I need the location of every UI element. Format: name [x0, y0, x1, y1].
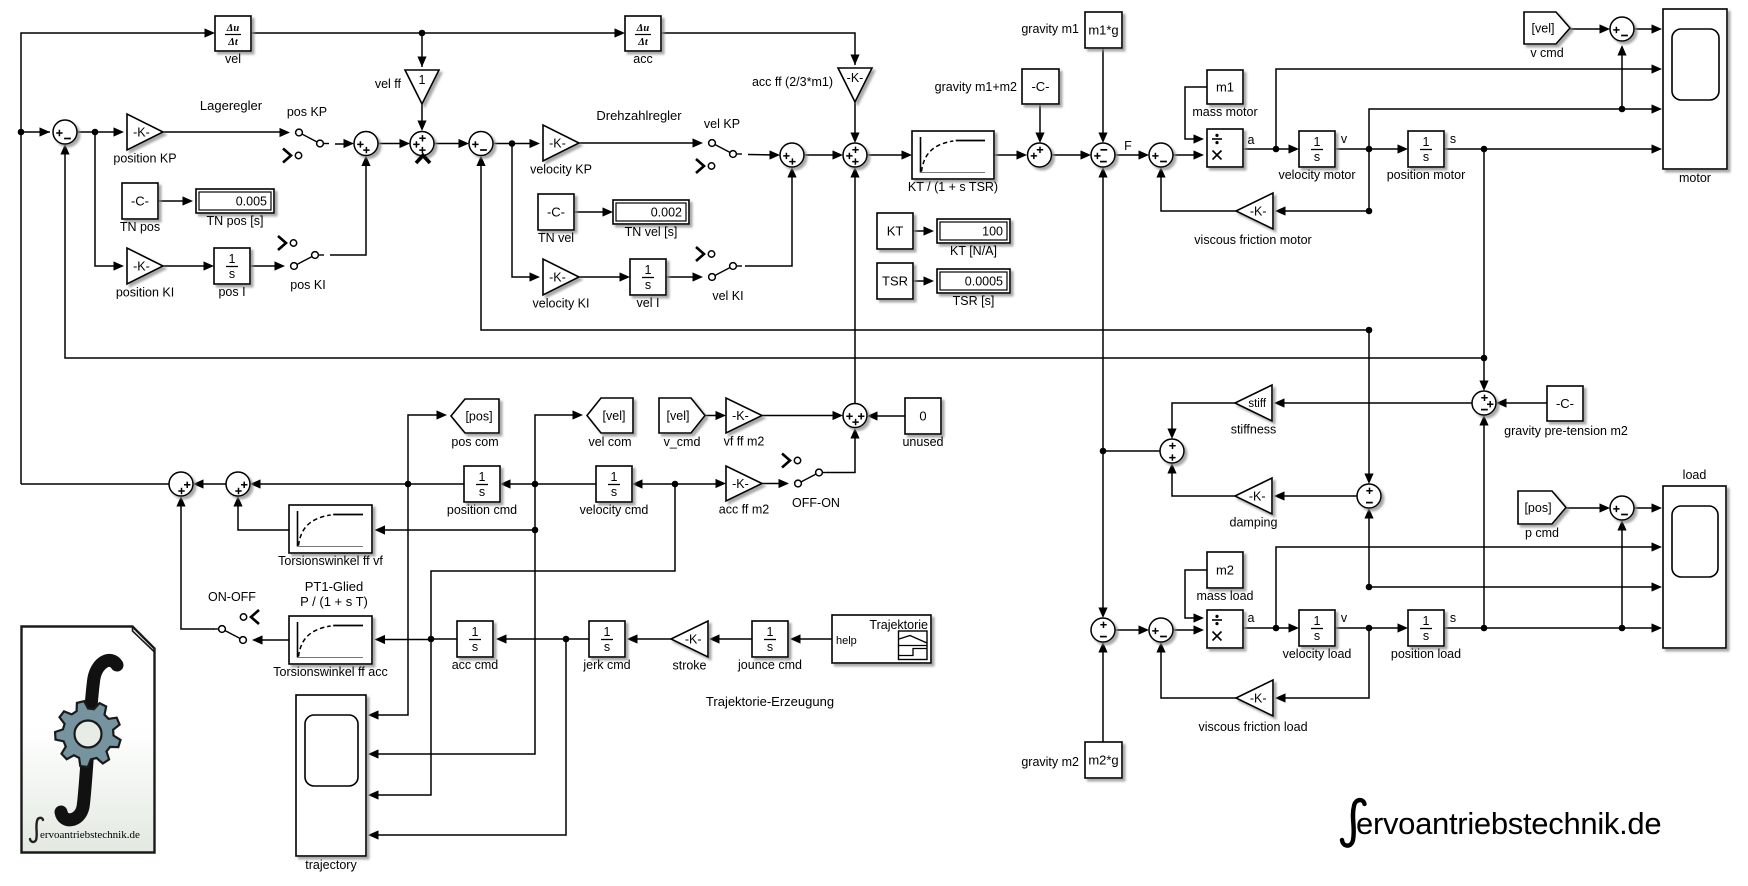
wire cmd vertical left — [21, 33, 212, 484]
gain position KI — [116, 248, 174, 300]
wire force line down to sum11 — [1102, 451, 1104, 615]
svg-text:jounce cmd: jounce cmd — [737, 658, 802, 672]
switch pos KP — [280, 105, 330, 163]
svg-text:help: help — [836, 635, 857, 647]
wire position KI to pos I — [163, 265, 211, 267]
svg-text:[vel]: [vel] — [1532, 21, 1555, 35]
wire sum13 to stiffness — [1277, 402, 1472, 404]
goto tag pos com — [451, 399, 499, 449]
wire sum9 to motor scope — [1634, 28, 1660, 30]
svg-text:TN vel [s]: TN vel [s] — [625, 225, 678, 239]
svg-text:Drehzahlregler: Drehzahlregler — [596, 108, 682, 123]
svg-text:stiff: stiff — [1248, 398, 1266, 410]
wire vel ff drop — [421, 33, 423, 67]
svg-text:position KP: position KP — [113, 152, 176, 166]
wire sum7 to sum8 (F) — [1115, 154, 1146, 156]
constant m1 — [1192, 70, 1257, 119]
wire m2*g to sum11 — [1102, 645, 1104, 742]
svg-text:[pos]: [pos] — [465, 409, 492, 423]
svg-text:vf ff m2: vf ff m2 — [724, 435, 765, 449]
svg-text:Trajektorie-Erzeugung: Trajektorie-Erzeugung — [706, 694, 834, 709]
svg-text:1: 1 — [479, 470, 486, 484]
node v friction branch — [1366, 208, 1373, 215]
wire acc cmd out — [434, 638, 457, 640]
logo integral sign — [61, 660, 117, 819]
wire sum15 to product load — [1173, 629, 1201, 631]
sum17 cmd torsion vf — [226, 472, 250, 496]
sum1 pos PI — [354, 132, 378, 156]
wire TN pos to display — [158, 200, 190, 202]
svg-text:jerk cmd: jerk cmd — [582, 658, 630, 672]
svg-text:s: s — [604, 640, 610, 654]
wire stiffness to sum10 — [1172, 403, 1235, 436]
svg-text:s: s — [479, 485, 485, 499]
switch OFF-ON — [779, 454, 840, 511]
gain damping — [1230, 478, 1278, 530]
svg-text:-K-: -K- — [1250, 204, 1267, 218]
svg-text:m1*g: m1*g — [1088, 22, 1118, 37]
wire sum16 out to cmd line — [21, 483, 169, 485]
node v load branch — [1366, 625, 1373, 632]
svg-text:v: v — [1341, 132, 1348, 146]
svg-text:1: 1 — [767, 625, 774, 639]
node vel cmd to torsion vf — [532, 527, 539, 534]
wire m1 to product divide — [1185, 87, 1207, 139]
wire acc deriv to acc ff — [661, 33, 855, 65]
wire acc up from acc cmd — [431, 484, 675, 639]
transfer KT/(1+sTSR) — [908, 131, 998, 194]
svg-text:load: load — [1683, 468, 1707, 482]
switch pos KI — [275, 236, 326, 292]
svg-text:-C-: -C- — [1556, 396, 1574, 411]
svg-text:acc cmd: acc cmd — [452, 658, 499, 672]
svg-text:s: s — [645, 278, 651, 292]
svg-text:Lageregler: Lageregler — [200, 98, 263, 113]
from tag vel / v cmd — [1524, 12, 1570, 60]
wire vel cmd to torsion vf — [378, 529, 535, 531]
integrator acc cmd — [452, 621, 499, 672]
goto tag vel com — [587, 398, 633, 449]
svg-text:-K-: -K- — [549, 136, 566, 150]
svg-text:vel KP: vel KP — [704, 117, 740, 131]
svg-text:vel com: vel com — [588, 435, 631, 449]
gain stroke — [671, 621, 708, 673]
svg-text:0.0005: 0.0005 — [965, 274, 1003, 288]
constant m1*g — [1085, 12, 1122, 48]
wire vcmd tag to vf ff m2 — [705, 415, 723, 417]
wire jounce cmd to stroke — [712, 638, 752, 640]
gain acc ff m2 — [719, 466, 770, 517]
wire sum1 to sum2 — [378, 143, 407, 145]
display TSR — [937, 269, 1010, 308]
wire s load to sum13 — [1483, 418, 1485, 628]
wire jerk cmd out — [499, 638, 589, 640]
svg-text:PT1-Glied: PT1-Glied — [305, 579, 364, 594]
svg-text:pos KI: pos KI — [290, 278, 325, 292]
svg-text:m2: m2 — [1216, 562, 1234, 577]
sum16 cmd total — [169, 472, 193, 496]
wire m2 to product divide — [1185, 570, 1207, 618]
wire pos tag to sum14 — [1566, 507, 1607, 509]
sum9 v compare — [1610, 17, 1634, 41]
svg-text:-K-: -K- — [732, 409, 749, 423]
svg-text:TN pos [s]: TN pos [s] — [207, 214, 264, 228]
svg-text:Δt: Δt — [227, 37, 239, 48]
wire s load to sum14 — [1621, 523, 1623, 628]
scope load — [1663, 486, 1726, 648]
wire vel KP switch to sum4 — [748, 154, 777, 157]
wire vel error to velocity KI — [512, 144, 537, 278]
wire sum18 to sum5 — [854, 170, 856, 404]
svg-text:[vel]: [vel] — [603, 409, 626, 423]
svg-text:F: F — [1124, 139, 1132, 153]
svg-text:TN pos: TN pos — [120, 220, 160, 234]
svg-text:a: a — [1248, 133, 1255, 147]
wire pos KI switch to sum1 — [330, 159, 366, 256]
sum2 unconnected port — [416, 155, 430, 163]
node jerk branch — [563, 636, 570, 643]
svg-text:-K-: -K- — [685, 632, 702, 646]
svg-text:ON-OFF: ON-OFF — [208, 590, 256, 604]
node v to vcmd sum — [1619, 106, 1626, 113]
svg-text:100: 100 — [982, 224, 1003, 238]
wire vf ff m2 to sum18 — [762, 415, 840, 417]
wire velocity motor to position motor — [1335, 148, 1405, 150]
node v motor branch — [1366, 146, 1373, 153]
wire pos error to position KI — [95, 132, 121, 266]
svg-text:Δu: Δu — [226, 23, 240, 34]
node position error branch — [92, 129, 99, 136]
svg-text:1: 1 — [472, 625, 479, 639]
svg-text:s: s — [229, 267, 235, 281]
wire sum14 to load scope — [1634, 507, 1660, 509]
svg-text:gravity m1+m2: gravity m1+m2 — [935, 80, 1017, 94]
wire force line vertical — [1102, 170, 1104, 451]
gain position KP — [113, 114, 176, 166]
gain viscous friction motor — [1236, 193, 1273, 229]
wire velocity cmd to position cmd — [503, 483, 596, 485]
svg-text:s: s — [611, 485, 617, 499]
svg-text:v: v — [1341, 611, 1348, 625]
wire velocity load to position load — [1335, 627, 1405, 629]
svg-text:-K-: -K- — [133, 259, 150, 273]
svg-text:0.005: 0.005 — [236, 194, 267, 208]
svg-text:pos KP: pos KP — [287, 105, 327, 119]
svg-text:s: s — [1423, 150, 1429, 164]
wire position motor s to motor scope — [1444, 148, 1660, 150]
svg-text:v cmd: v cmd — [1530, 46, 1563, 60]
wire v to motor scope — [1369, 109, 1660, 149]
wire KT to display — [913, 230, 931, 232]
svg-text:vel: vel — [225, 52, 241, 66]
wire jerk to trajectory scope — [378, 639, 566, 835]
wire KT block to sum6 — [994, 154, 1024, 156]
constant TN pos — [120, 183, 160, 234]
svg-text:s: s — [472, 640, 478, 654]
node pos cmd branch — [405, 481, 412, 488]
svg-text:KT / (1 + s TSR): KT / (1 + s TSR) — [908, 180, 998, 194]
node acc cmd branch — [428, 636, 435, 643]
sum5 acc ff add — [843, 143, 867, 167]
node vel ff branch — [419, 30, 426, 37]
svg-text:KT: KT — [887, 223, 904, 238]
gain stiffness — [1231, 385, 1277, 437]
wire zero to sum18 — [870, 415, 905, 417]
sum11 load force — [1091, 618, 1115, 642]
svg-text:TSR [s]: TSR [s] — [953, 294, 995, 308]
svg-text:P / (1 + s T): P / (1 + s T) — [300, 594, 368, 609]
wire vcmd tag to sum9 — [1570, 28, 1607, 30]
integrator jounce cmd — [737, 621, 802, 672]
product load — [1207, 610, 1243, 648]
svg-text:0.002: 0.002 — [651, 205, 682, 219]
block Torsionswinkel ff vf — [278, 505, 383, 568]
wire acc ff m2 to switch — [762, 483, 786, 485]
svg-text:unused: unused — [902, 435, 943, 449]
logo gear — [55, 701, 120, 767]
block Trajektorie — [832, 615, 931, 663]
sum15 load friction — [1149, 618, 1173, 642]
svg-text:-C-: -C- — [547, 204, 565, 219]
svg-text:-K-: -K- — [1250, 691, 1267, 705]
svg-text:motor: motor — [1679, 171, 1711, 185]
gain velocity KP — [530, 125, 592, 177]
sum8 friction sub — [1149, 143, 1173, 167]
block Torsionswinkel ff acc — [273, 616, 387, 679]
wire viscous friction motor to sum8 — [1161, 170, 1236, 211]
svg-text:velocity KP: velocity KP — [530, 163, 592, 177]
wire position feedback — [65, 147, 1484, 358]
node acc branch top — [672, 481, 679, 488]
integrator pos I — [214, 248, 250, 299]
integrator position cmd — [447, 466, 517, 517]
wire sum12 to damping — [1277, 495, 1357, 497]
node position feedback junction — [1481, 355, 1488, 362]
svg-text:position load: position load — [1391, 647, 1461, 661]
svg-text:pos I: pos I — [218, 285, 245, 299]
scope trajectory — [296, 695, 366, 856]
integrator jerk cmd — [582, 621, 630, 672]
svg-text:-C-: -C- — [1031, 79, 1049, 94]
from tag pos / p cmd — [1518, 491, 1566, 540]
wire position KP to switch — [163, 131, 287, 133]
svg-text:pos com: pos com — [451, 435, 498, 449]
wire velocity feedback — [481, 159, 1369, 331]
wire gravity m1+m2 to sum6 — [1039, 104, 1041, 140]
svg-text:acc ff (2/3*m1): acc ff (2/3*m1) — [752, 75, 833, 89]
wire on-off switch to sum16 — [181, 499, 214, 629]
wire vel ff to sum2 — [421, 104, 423, 128]
svg-text:velocity motor: velocity motor — [1278, 168, 1355, 182]
svg-text:1: 1 — [604, 625, 611, 639]
svg-text:TN vel: TN vel — [538, 231, 574, 245]
svg-text:0: 0 — [919, 408, 926, 423]
svg-text:m1: m1 — [1216, 79, 1234, 94]
svg-text:s: s — [1314, 629, 1320, 643]
wire off-on switch to sum18 — [827, 431, 855, 473]
wire v load to viscous friction load — [1278, 628, 1369, 698]
wire sum4 to sum5 — [804, 154, 840, 156]
switch vel KI — [693, 247, 744, 303]
svg-text:Torsionswinkel ff acc: Torsionswinkel ff acc — [273, 665, 387, 679]
constant m2*g — [1085, 742, 1122, 778]
wire product a to velocity motor — [1243, 148, 1296, 150]
scope motor — [1663, 9, 1727, 169]
derivative block acc — [625, 16, 661, 66]
display KT — [937, 219, 1010, 258]
svg-text:KT [N/A]: KT [N/A] — [950, 244, 997, 258]
constant gravity m1+m2 — [1022, 69, 1059, 104]
display TN pos — [196, 189, 274, 228]
svg-text:gravity pre-tension m2: gravity pre-tension m2 — [1504, 424, 1628, 438]
svg-text:-C-: -C- — [131, 193, 149, 208]
node v load scope branch — [1366, 584, 1373, 591]
constant zero — [902, 398, 943, 449]
svg-text:trajectory: trajectory — [305, 858, 357, 872]
svg-text:position KI: position KI — [116, 286, 174, 300]
wire velocity KI to vel I — [579, 276, 627, 278]
wire product load a to velocity load — [1243, 627, 1296, 629]
wire pos cmd to pos com tag — [408, 415, 444, 484]
svg-text:Δt: Δt — [637, 37, 649, 48]
wire acc ff to sum5 — [854, 102, 856, 140]
wire TN vel to display — [574, 211, 610, 213]
svg-text:[pos]: [pos] — [1524, 501, 1551, 515]
sum7 force sum — [1091, 143, 1115, 167]
svg-text:s: s — [1450, 611, 1456, 625]
node a load branch — [1273, 625, 1280, 632]
svg-text:Δu: Δu — [636, 23, 650, 34]
svg-text:a: a — [1248, 611, 1255, 625]
wire m1*g to sum7 — [1102, 48, 1104, 140]
from tag v_cmd — [659, 398, 705, 449]
svg-text:vel KI: vel KI — [712, 289, 743, 303]
svg-text:1: 1 — [1423, 135, 1430, 149]
svg-text:position cmd: position cmd — [447, 503, 517, 517]
wire pos I to switch — [250, 265, 282, 267]
wire v load to load scope — [1369, 586, 1660, 588]
node cmd to position sum — [18, 129, 25, 136]
wire v motor to sum12 — [1368, 330, 1370, 481]
svg-text:-K-: -K- — [847, 71, 864, 85]
wire sum10 to force line — [1103, 450, 1161, 452]
gain vf ff m2 — [724, 398, 765, 449]
wire v to viscous friction motor — [1278, 149, 1369, 211]
sum4 vel PI — [780, 143, 804, 167]
node s load branch — [1481, 625, 1488, 632]
wire damping to sum10 — [1172, 466, 1235, 496]
wire sum3 out — [493, 143, 537, 145]
svg-text:-K-: -K- — [549, 270, 566, 284]
logo servoantriebstechnik document — [22, 627, 155, 853]
wire vel cmd down — [378, 484, 535, 754]
svg-text:1: 1 — [419, 73, 426, 87]
wire vel KI switch to sum4 — [745, 170, 792, 266]
product motor — [1207, 129, 1243, 167]
logo text — [30, 818, 140, 842]
svg-text:acc ff m2: acc ff m2 — [719, 503, 770, 517]
svg-text:1: 1 — [611, 470, 618, 484]
brand servoantriebstechnik.de — [1342, 800, 1661, 846]
sum13 rel position — [1472, 391, 1496, 415]
svg-text:-K-: -K- — [1249, 489, 1266, 503]
wire position cmd to sum17 — [253, 483, 464, 485]
svg-text:1: 1 — [645, 263, 652, 277]
wire cmd to sumA — [21, 131, 50, 133]
node velocity feedback junction — [1366, 327, 1373, 334]
svg-text:[vel]: [vel] — [667, 409, 690, 423]
svg-text:v_cmd: v_cmd — [664, 435, 701, 449]
node vel cmd branch — [532, 481, 539, 488]
wire TSR to display — [913, 280, 931, 282]
svg-text:damping: damping — [1230, 516, 1278, 530]
svg-text:1: 1 — [1314, 135, 1321, 149]
wire acc to acc ff m2 — [675, 483, 723, 485]
sum14 p compare — [1610, 496, 1634, 520]
node a motor branch — [1273, 146, 1280, 153]
svg-text:s: s — [1314, 150, 1320, 164]
node s motor branch — [1481, 146, 1488, 153]
wire trajektorie to jounce cmd — [793, 638, 832, 640]
svg-text:velocity cmd: velocity cmd — [580, 503, 649, 517]
svg-text:mass motor: mass motor — [1192, 105, 1257, 119]
wire a to motor scope — [1276, 69, 1660, 149]
integrator velocity motor — [1278, 131, 1355, 182]
svg-text:viscous friction load: viscous friction load — [1198, 720, 1307, 734]
switch ON-OFF — [208, 590, 262, 645]
svg-text:TSR: TSR — [882, 273, 908, 288]
svg-text:s: s — [767, 640, 773, 654]
svg-text:velocity load: velocity load — [1283, 647, 1352, 661]
svg-text:ervoantriebstechnik.de: ervoantriebstechnik.de — [40, 829, 140, 841]
wire vel I to switch — [666, 276, 700, 278]
sum18 unused — [843, 404, 867, 428]
wire s motor down — [1483, 149, 1485, 388]
wire acc to torsion acc — [378, 639, 431, 641]
integrator position motor — [1387, 131, 1466, 182]
wire velocity KP to switch — [579, 142, 700, 144]
svg-text:acc: acc — [633, 52, 652, 66]
derivative block vel — [215, 16, 251, 66]
wire pos KP switch out — [335, 143, 351, 145]
wire sumA out — [77, 131, 121, 133]
constant TN vel — [538, 194, 574, 245]
svg-text:stiffness: stiffness — [1231, 423, 1277, 437]
svg-text:m2*g: m2*g — [1088, 752, 1118, 767]
svg-text:p cmd: p cmd — [1525, 526, 1559, 540]
wire gravity pretension to sum13 — [1499, 402, 1547, 404]
sum2 vel ff add — [410, 132, 434, 156]
wire v to sum9 — [1621, 48, 1623, 109]
svg-text:vel ff: vel ff — [375, 77, 402, 91]
svg-text:viscous friction motor: viscous friction motor — [1194, 233, 1311, 247]
wire viscous friction load to sum15 — [1161, 645, 1237, 698]
constant m2 — [1197, 552, 1254, 603]
svg-text:1: 1 — [1423, 614, 1430, 628]
wire vel cmd to vel com tag — [535, 415, 580, 484]
svg-text:Torsionswinkel ff vf: Torsionswinkel ff vf — [278, 554, 383, 568]
integrator vel I — [630, 259, 666, 310]
wire position load s out — [1444, 627, 1660, 629]
wire torsion vf to sum17 — [238, 499, 289, 530]
sum12 rel velocity — [1357, 484, 1381, 508]
gain vel ff — [405, 70, 439, 104]
wire sum17 to sum16 — [196, 483, 226, 485]
wire sum8 to product — [1173, 154, 1201, 156]
svg-text:OFF-ON: OFF-ON — [792, 496, 840, 510]
wire pos cmd to trajectory scope — [378, 484, 408, 715]
svg-text:s: s — [1450, 132, 1456, 146]
